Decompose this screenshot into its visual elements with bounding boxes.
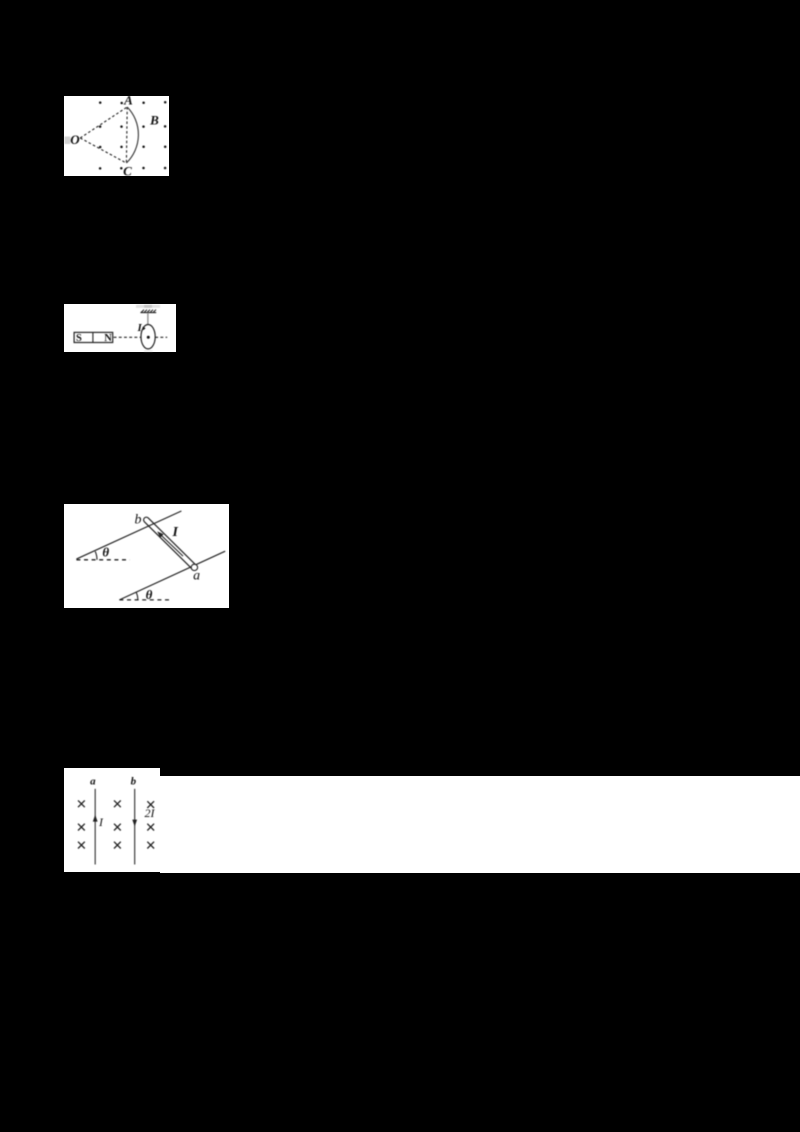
wire a: [94, 789, 96, 865]
figure: parallel wires a,b with currents I and 2I in crossed field: [64, 768, 160, 872]
dashed horizontal 2: [119, 599, 172, 601]
figure: magnetic field sector OAC in dotted field region B: [64, 96, 169, 176]
upper rail: [76, 511, 181, 559]
svg-text:I: I: [136, 322, 142, 334]
angle arc 2: [136, 593, 138, 600]
crosses row 1: [78, 801, 154, 809]
svg-text:b: b: [131, 776, 137, 788]
svg-text:a: a: [90, 776, 96, 788]
svg-text:θ: θ: [146, 588, 153, 603]
crosses row 3: [78, 842, 154, 849]
dashed horizontal 1: [76, 559, 129, 561]
string: [147, 313, 149, 325]
wire a arrow up: [93, 815, 98, 822]
svg-text:C: C: [123, 163, 132, 176]
rod end circle a: [191, 565, 197, 571]
ceiling line: [140, 312, 156, 314]
ring (ellipse): [141, 324, 155, 348]
angle arc 1: [95, 552, 97, 560]
dashed chord AC: [125, 107, 128, 163]
gray artifact bar: [136, 305, 160, 308]
rod ab (outline): [146, 520, 194, 567]
svg-text:N: N: [104, 333, 112, 344]
figure: current rod ab on inclined rails, angle theta: [64, 504, 229, 607]
dashed axis line: [113, 336, 167, 338]
svg-text:A: A: [123, 96, 133, 108]
gray artifact bottom: [144, 350, 153, 353]
figure: bar magnet and suspended current ring: [64, 304, 177, 352]
svg-text:I: I: [98, 815, 104, 829]
svg-text:b: b: [135, 513, 142, 528]
current arrow in rod: [160, 535, 182, 556]
svg-text:θ: θ: [102, 545, 109, 560]
blank white band right of figure 4: [160, 776, 800, 873]
lower rail: [119, 552, 225, 601]
bar magnet body: [74, 332, 113, 342]
crosses row 2: [78, 824, 154, 831]
dashed radius OC: [80, 138, 126, 163]
field dots grid: [99, 100, 167, 169]
dashed radius OA: [80, 107, 127, 138]
ceiling hatches: [141, 310, 156, 313]
wire b: [134, 789, 136, 865]
center dot: [147, 336, 150, 339]
current arrowhead: [142, 327, 145, 331]
svg-text:B: B: [149, 112, 159, 127]
svg-text:a: a: [193, 569, 200, 584]
gray artifact square: [65, 136, 71, 144]
svg-text:I: I: [171, 526, 178, 541]
arc AC: [126, 107, 138, 163]
svg-text:S: S: [76, 333, 82, 344]
wire b arrow down: [132, 820, 137, 827]
svg-text:O: O: [70, 132, 80, 147]
magnet divider: [92, 332, 94, 342]
